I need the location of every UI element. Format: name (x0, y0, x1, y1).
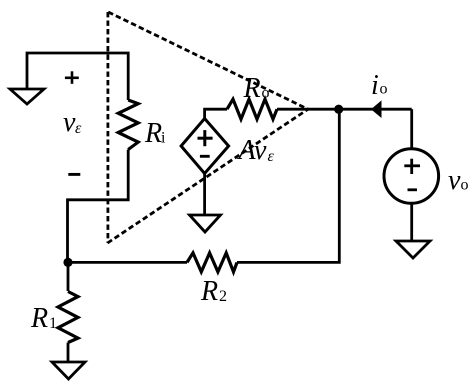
wire R2 to right vertical up to output node (237, 109, 339, 262)
resistor R1 (58, 292, 78, 343)
svg-text:R: R (30, 303, 48, 334)
label Ri (144, 118, 166, 149)
resistor Ri (118, 100, 138, 150)
wire down to vo source (410, 109, 413, 149)
svg-text:o: o (380, 81, 388, 98)
svg-text:o: o (262, 85, 270, 102)
label A v_eps (237, 135, 275, 166)
label R2 (200, 276, 227, 307)
label io (371, 70, 388, 101)
wire diamond bottom to ground (203, 174, 206, 216)
ground (below R1) (52, 362, 85, 379)
ground (below dependent source) (190, 215, 221, 232)
label + (source plus) (198, 130, 213, 146)
svg-text:1: 1 (49, 315, 57, 332)
dependent source A v_eps (diamond) (181, 119, 229, 174)
wire node A down to R1 (67, 262, 70, 291)
arrow io (current direction) (371, 100, 382, 118)
label - (v_eps minus) (68, 173, 80, 176)
wire R1 to ground (67, 343, 70, 363)
op-amp dashed boundary (108, 12, 309, 243)
node B output junction dot (334, 105, 343, 114)
wire diamond top to Ro (205, 109, 227, 118)
svg-text:v: v (448, 165, 461, 196)
svg-text:R: R (243, 73, 261, 104)
resistor Ro (227, 99, 277, 119)
ground (top left) (10, 89, 44, 104)
wire bottom left to R2 (68, 261, 188, 264)
label - (source minus) (200, 155, 210, 158)
svg-text:R: R (144, 118, 162, 149)
label - (vo minus) (408, 188, 418, 191)
wire top-left horizontal (27, 53, 128, 100)
node A junction dot (63, 258, 72, 267)
svg-text:2: 2 (219, 288, 227, 305)
label R1 (30, 303, 57, 334)
ground (below vo) (396, 241, 430, 258)
label vo (448, 165, 469, 196)
svg-text:ε: ε (75, 120, 82, 137)
svg-text:R: R (200, 276, 218, 307)
svg-text:o: o (461, 177, 469, 194)
label v_eps (63, 107, 82, 138)
wire from Ri bottom to left (68, 150, 129, 263)
wire output horizontal (277, 108, 412, 111)
label + (v_eps plus) (65, 71, 79, 84)
wire vo to ground (410, 203, 413, 241)
svg-text:ε: ε (268, 148, 275, 165)
resistor R2 (187, 253, 237, 272)
svg-text:Av: Av (237, 135, 268, 166)
label + (vo plus) (404, 159, 420, 174)
label Ro (243, 73, 270, 104)
source vo (independent voltage source) (384, 149, 439, 204)
svg-text:i: i (161, 130, 166, 147)
svg-text:i: i (371, 70, 379, 101)
